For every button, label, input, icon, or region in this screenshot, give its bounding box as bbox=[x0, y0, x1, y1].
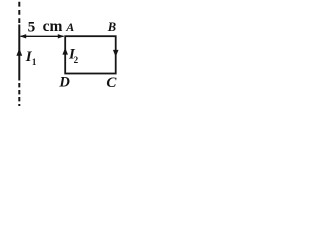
wire W1 dashed extension top bbox=[18, 2, 20, 25]
wire W1 dashed extension bottom bbox=[18, 83, 20, 106]
dimension arrow 5 cm (double-headed) bbox=[21, 35, 64, 37]
current arrow (down, on side BC) bbox=[113, 50, 119, 57]
current arrow I1 (up, on wire) bbox=[16, 48, 22, 56]
current arrow I2 (up, on side DA) bbox=[62, 48, 68, 55]
svg-text:2: 2 bbox=[74, 55, 79, 65]
wire W1 solid segment bbox=[18, 25, 20, 81]
svg-text:A: A bbox=[65, 20, 74, 34]
svg-text:D: D bbox=[58, 75, 70, 91]
svg-text:1: 1 bbox=[32, 57, 37, 67]
loop ABCD rectangle bbox=[65, 36, 116, 73]
svg-text:B: B bbox=[107, 20, 116, 34]
svg-text:cm: cm bbox=[43, 18, 63, 35]
svg-text:5: 5 bbox=[28, 18, 36, 35]
svg-text:C: C bbox=[106, 75, 117, 91]
